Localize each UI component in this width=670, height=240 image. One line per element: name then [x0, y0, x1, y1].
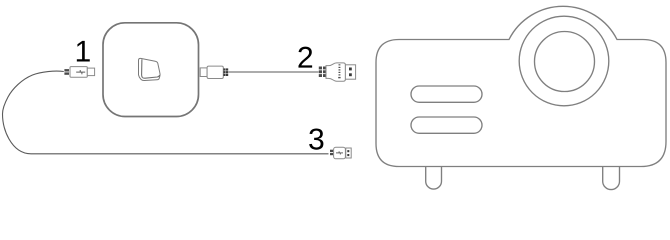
wire cable1 loop from plug1 to plug3 [3, 71, 329, 154]
usb plug P3 usb symbol [336, 151, 343, 154]
usb plug P2 metal shell [345, 65, 355, 79]
projector vent slot upper [411, 86, 482, 102]
device logo front face left edge [141, 59, 144, 77]
usb plug P1 metal tip [87, 68, 94, 76]
usb plug P1 usb symbol [76, 70, 85, 74]
usb plug P2 flared body [326, 63, 345, 81]
usb plug P3 shell holes [347, 150, 349, 156]
streaming box device [103, 23, 199, 117]
label 1 [77, 41, 90, 62]
projector vent slot lower [411, 117, 482, 133]
device logo 3d slab silhouette [139, 58, 161, 80]
wire cable2 [229, 71, 319, 73]
usb plug P3 body [334, 147, 346, 159]
cable2 micro connector body [207, 66, 223, 78]
usb plug P2 strain relief ribs [319, 67, 326, 78]
cable2 micro connector ribs [223, 68, 228, 76]
projector foot right [603, 167, 620, 190]
projector foot left [426, 167, 442, 190]
cable2 micro connector tip (into device) [200, 68, 207, 77]
usb plug P2 vertical text marks [338, 64, 340, 78]
usb plug P2 shell holes [349, 68, 352, 77]
projector lens outer ring [519, 16, 609, 106]
projector lens inner circle [535, 32, 595, 92]
usb plug P3 metal shell [346, 148, 351, 158]
label 2 [298, 47, 312, 68]
device logo front face bottom edge [142, 75, 159, 78]
label 3 [309, 128, 323, 149]
usb plug P3 strain relief ribs [330, 150, 333, 156]
projector body with lens bump [376, 6, 666, 166]
usb plug P1 strain relief ribs [64, 69, 69, 75]
usb plug P1 body [70, 67, 87, 78]
